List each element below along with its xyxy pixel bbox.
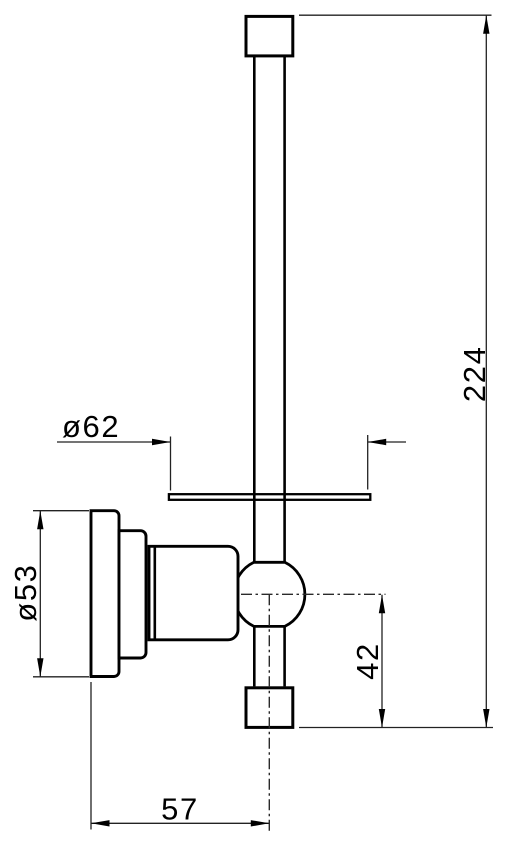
dim o62 left extension line xyxy=(170,437,172,491)
dim o53 top extension line xyxy=(33,510,89,512)
dim 57 right arrow xyxy=(251,820,269,826)
dim 224 bottom arrow xyxy=(483,709,489,728)
rod lower right line xyxy=(283,626,286,686)
barrel rim line xyxy=(154,546,157,640)
rod lower left line xyxy=(253,626,256,686)
svg-text:ø53: ø53 xyxy=(8,563,43,621)
dim 57 left arrow xyxy=(91,820,110,826)
svg-text:42: 42 xyxy=(350,642,385,680)
barrel cylinder xyxy=(149,546,238,640)
dim 224 top extension line xyxy=(299,14,492,16)
centerline vertical below ball xyxy=(268,594,270,831)
dim 224 bottom extension line xyxy=(299,727,493,729)
round plate edge-on xyxy=(169,494,370,500)
dim 42 bottom arrow xyxy=(379,709,385,728)
dim o53 top arrow xyxy=(37,511,43,530)
dim 42 top arrow xyxy=(379,595,385,614)
centerline horizontal through ball xyxy=(241,593,386,595)
dim o53 bottom extension line xyxy=(33,676,89,678)
dim o62 left arrow xyxy=(152,439,171,445)
bottom cap xyxy=(246,688,293,728)
ball joint xyxy=(234,562,305,626)
dim 224 top arrow xyxy=(483,15,489,34)
dim o53 bottom arrow xyxy=(37,658,43,677)
svg-text:224: 224 xyxy=(457,346,492,403)
dim o62 right line xyxy=(368,441,406,443)
dim 224 line xyxy=(485,15,487,727)
dim 57 left extension line xyxy=(90,682,92,830)
dim 42 line xyxy=(381,595,383,728)
dim 57 line xyxy=(91,822,269,824)
wall plate flange xyxy=(91,511,119,677)
top cap xyxy=(246,16,293,56)
dim o62 right extension line xyxy=(367,435,369,490)
dim o62 left line xyxy=(57,441,171,443)
dim o53 line xyxy=(39,511,41,677)
rod upper left line xyxy=(253,57,256,562)
svg-text:ø62: ø62 xyxy=(62,409,120,444)
dim o62 right arrow xyxy=(368,439,387,445)
svg-text:57: 57 xyxy=(161,792,199,827)
rod upper right line xyxy=(283,57,286,562)
flange middle step xyxy=(119,531,146,658)
